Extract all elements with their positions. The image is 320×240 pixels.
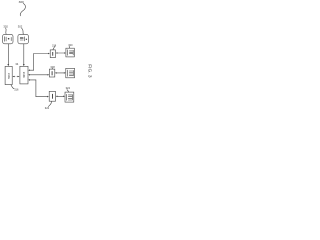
icon bars in 302b: [20, 37, 25, 41]
leader below 310a: [11, 85, 14, 89]
leader above 312b: [51, 67, 53, 70]
down wire of bottom branch: [35, 80, 37, 97]
stub wire from 310b middle: [30, 74, 48, 76]
processor block 310a: [5, 66, 12, 84]
right head row3: [63, 96, 65, 98]
right head row2: [64, 72, 66, 74]
svg-text:322: 322: [45, 106, 50, 110]
stub wire from 310b to bus (top): [30, 69, 34, 71]
leader below 312c: [48, 101, 51, 106]
microphone icon bars in 302a: [5, 37, 12, 42]
arrowhead into 310b bottom stub: [28, 79, 30, 81]
leader for numeral 300: [20, 3, 25, 15]
transceiver box 312a: [50, 50, 55, 58]
arrowhead into 310b: [23, 64, 25, 66]
link arrow row1: [57, 52, 64, 54]
arrowhead into 310a: [7, 64, 9, 66]
earpiece box 314b: [66, 68, 75, 78]
hearing device housing 302a: [3, 34, 13, 43]
processor block 310b: [20, 66, 28, 84]
receiver dot in 302b: [26, 39, 27, 40]
arrowhead into 310b middle stub: [28, 74, 30, 76]
link arrow row3: [57, 95, 63, 97]
svg-text:318: 318: [50, 65, 55, 69]
bidirectional link between 310a and 310b: [14, 76, 19, 78]
left arrowhead of link: [13, 76, 15, 78]
leader for 302b: [22, 28, 24, 34]
right arrowhead of link: [18, 76, 20, 78]
svg-text:310a: 310a: [7, 73, 11, 79]
label smudge in 312a: [52, 52, 53, 56]
left head row2: [55, 72, 57, 74]
left head row3: [56, 96, 58, 98]
link arrow row2: [56, 72, 64, 74]
speaker icon in 314b: [68, 70, 74, 76]
speaker icon in 314a: [68, 50, 74, 56]
svg-text:302: 302: [3, 24, 8, 28]
svg-text:310b: 310b: [22, 72, 26, 78]
earpiece box 314c: [65, 92, 74, 102]
arrowhead into 312a: [48, 53, 50, 55]
arrowhead into 310b top stub: [28, 69, 30, 71]
label smudge in 312b: [52, 71, 53, 75]
stub wire from 310b bottom: [30, 79, 36, 81]
left head row1: [56, 52, 58, 54]
arrowhead into 312c: [47, 96, 49, 98]
right head row1: [64, 52, 66, 54]
arrowhead into 312b: [48, 74, 50, 76]
hearing device housing 302b: [18, 34, 29, 43]
wire from 302a down to processor 310a: [7, 44, 9, 65]
leader above 314a: [68, 46, 71, 48]
speaker icon in 314c: [67, 94, 73, 100]
leader above 312a: [53, 47, 55, 50]
feed wire to transceiver 312a: [34, 53, 49, 55]
label smudge in 312c: [52, 94, 53, 99]
svg-text:324: 324: [66, 86, 71, 90]
bus riser wire: [33, 54, 35, 71]
svg-text:FIG. 3: FIG. 3: [86, 64, 92, 78]
feed wire to transceiver 312c: [36, 96, 47, 98]
wire from 302b down to processor 310b: [23, 44, 25, 65]
transceiver box 312b: [49, 69, 54, 77]
receiver dot in 302a: [8, 38, 10, 40]
earpiece box 314a: [66, 48, 74, 57]
transceiver box 312c: [49, 91, 55, 101]
svg-text:316: 316: [14, 87, 19, 91]
leader for 302a: [5, 28, 8, 34]
svg-text:302: 302: [18, 24, 23, 28]
leader above 314c: [67, 90, 69, 92]
